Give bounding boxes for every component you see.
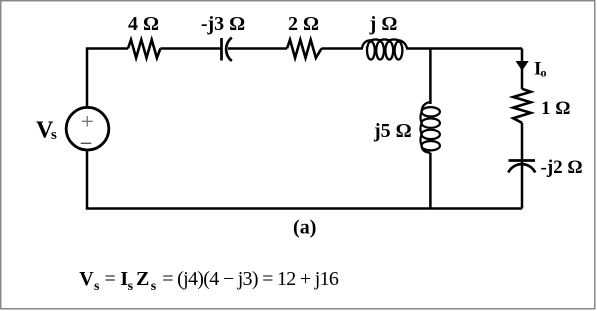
svg-text:-j3 Ω: -j3 Ω (201, 13, 245, 35)
svg-text:o: o (541, 66, 547, 80)
wire resistor 4Ω to capacitor -j3Ω (160, 47, 221, 50)
wire inductor j5Ω to bottom rail (429, 153, 432, 209)
current arrow Io (516, 61, 529, 71)
svg-text:s: s (94, 279, 100, 294)
svg-text:j5 Ω: j5 Ω (373, 120, 412, 142)
svg-text:4 Ω: 4 Ω (128, 13, 159, 35)
wire capacitor -j2Ω to bottom-right corner (521, 161, 524, 209)
equation Vs = Is Zs = (j4)(4 − j3) = 12 + j16 (79, 268, 339, 294)
svg-text:j Ω: j Ω (369, 13, 398, 35)
resistor 1Ω (513, 89, 531, 123)
svg-text:2 Ω: 2 Ω (288, 13, 319, 35)
node: junction of middle branch with top wire (429, 49, 432, 105)
label I_o (534, 59, 547, 80)
capacitor -j2Ω (508, 161, 535, 173)
inductor j5Ω (420, 102, 439, 153)
resistor 4Ω (128, 40, 160, 58)
wire resistor 1Ω to capacitor -j2Ω (521, 123, 524, 161)
svg-text:Z: Z (136, 268, 149, 290)
svg-text:V: V (79, 268, 94, 290)
wire resistor 2Ω to inductor jΩ (322, 47, 363, 50)
wire top-right corner down to resistor 1Ω (521, 49, 524, 90)
capacitor -j3Ω (222, 38, 232, 62)
svg-text:1 Ω: 1 Ω (541, 98, 570, 119)
label V_s (36, 118, 57, 144)
svg-text:(a): (a) (293, 217, 316, 239)
wire top-left: left rail top corner to resistor 4Ω (87, 49, 128, 108)
svg-text:-j2 Ω: -j2 Ω (541, 157, 583, 178)
voltage source Vs (66, 107, 109, 150)
svg-text:s: s (128, 279, 134, 294)
resistor 2Ω (287, 40, 322, 58)
svg-text:s: s (151, 279, 157, 294)
wire voltage source to bottom-left corner (87, 150, 430, 209)
svg-text:s: s (51, 127, 57, 143)
wire bottom rail right segment (430, 207, 522, 210)
wire capacitor -j3Ω to resistor 2Ω (228, 47, 287, 50)
svg-text:=: = (105, 268, 116, 290)
svg-text:= (j4)(4 − j3) = 12 + j16: = (j4)(4 − j3) = 12 + j16 (162, 268, 339, 290)
inductor jΩ (362, 39, 408, 59)
wire inductor jΩ to top-right corner (406, 47, 522, 50)
